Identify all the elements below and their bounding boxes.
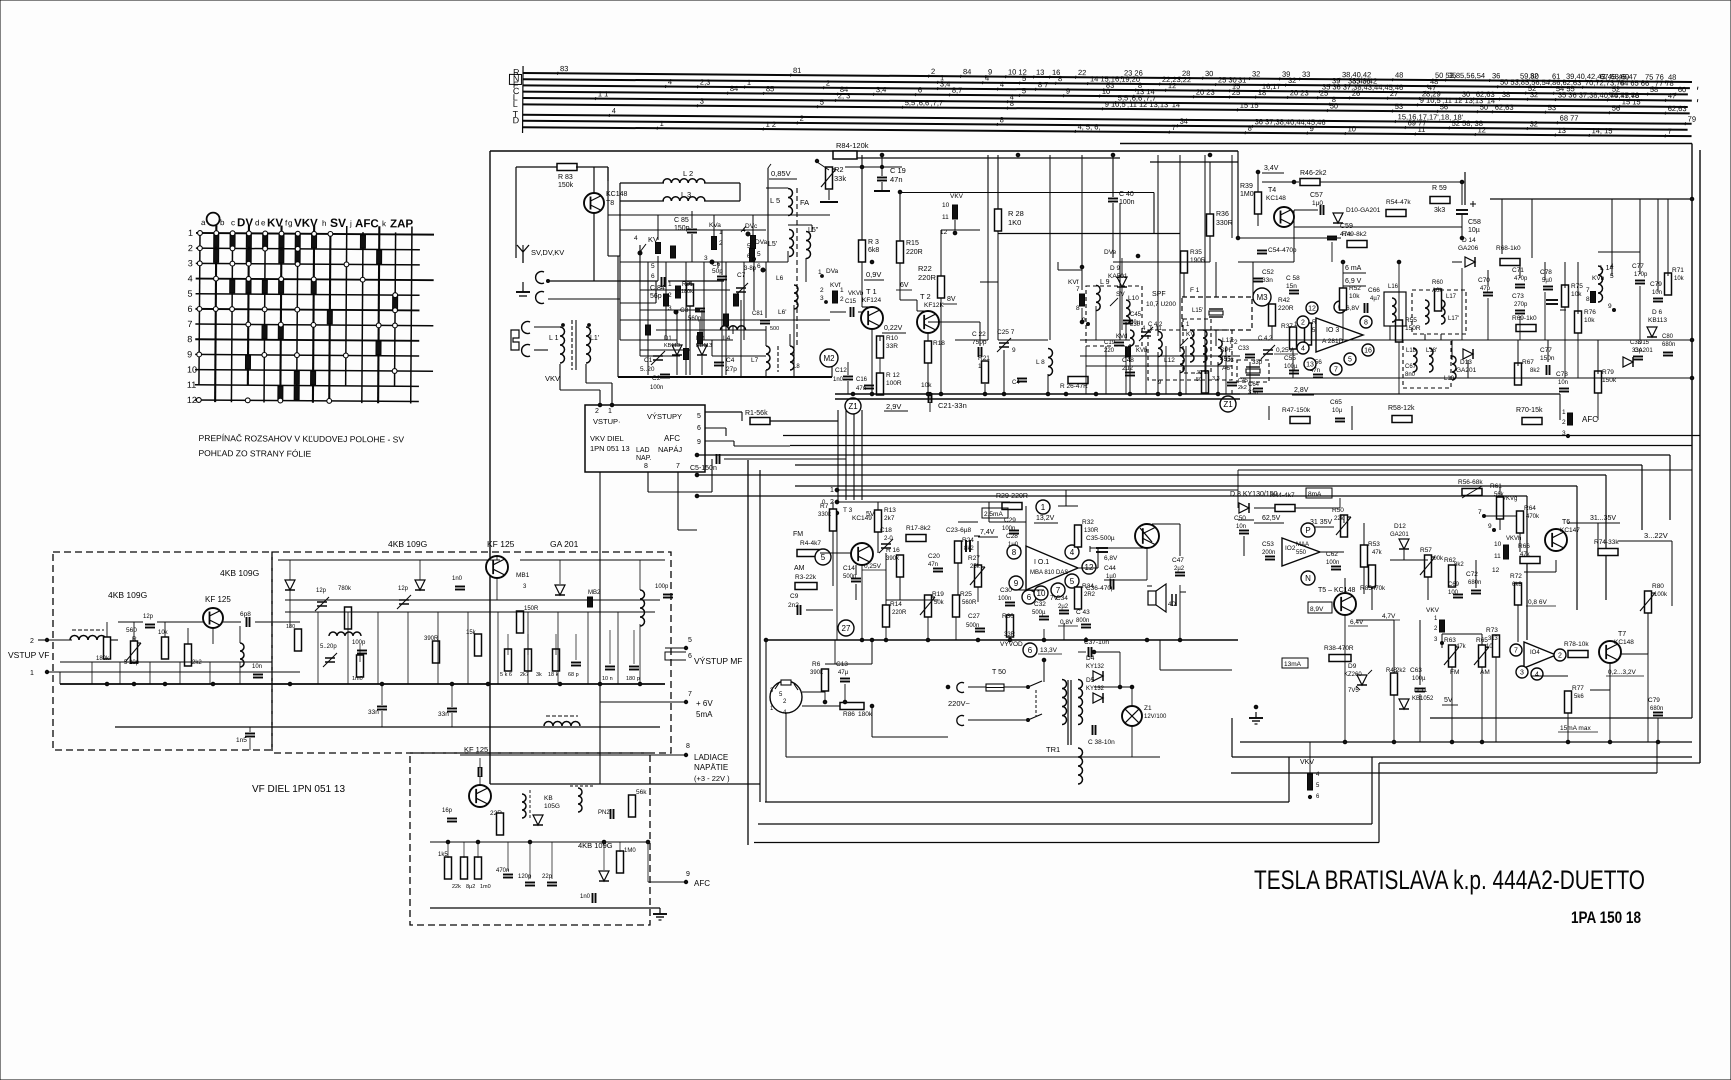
svg-text:b: b: [220, 218, 225, 227]
inductor L12: [1180, 347, 1184, 372]
wire: [1451, 587, 1453, 596]
matrix row 6: [195, 309, 419, 311]
svg-text:L5": L5": [808, 227, 819, 234]
wire: [1496, 85, 1499, 88]
contact 38: [245, 356, 250, 369]
svg-text:C 4,2: C 4,2: [1258, 336, 1273, 342]
svg-text:22k: 22k: [452, 884, 461, 890]
wire: [845, 663, 872, 665]
wire: [1294, 226, 1462, 228]
svg-text:47n: 47n: [856, 386, 866, 392]
svg-text:PREPÍNAČ ROZSAHOV V KĽUDOVEJ: PREPÍNAČ ROZSAHOV V KĽUDOVEJ POLOHE - SV: [199, 433, 405, 444]
resistor R16 390k: [897, 555, 904, 577]
capacitor C2: [660, 375, 670, 378]
inductor L11: [1158, 331, 1162, 356]
matrix col c: [231, 231, 232, 402]
contact point 0,11: [196, 398, 201, 403]
svg-text:MB1: MB1: [516, 572, 530, 579]
wire: [811, 225, 813, 232]
svg-text:R39: R39: [1240, 183, 1253, 190]
pin 6: [1022, 590, 1036, 604]
wire: [1012, 505, 1026, 507]
capacitor C78: [1543, 287, 1553, 290]
svg-text:12: 12: [1492, 567, 1500, 574]
wire: [1351, 406, 1353, 430]
wire: [1588, 522, 1620, 524]
svg-text:R 16: R 16: [886, 547, 900, 554]
svg-text:2R2: 2R2: [1084, 592, 1096, 598]
wire: [676, 310, 678, 344]
wire: [943, 303, 957, 305]
svg-text:C66: C66: [1368, 287, 1380, 294]
wire: [1361, 686, 1363, 700]
wire: [1559, 394, 1561, 420]
bus: [618, 376, 832, 378]
contact 117: [376, 342, 381, 355]
svg-text:25k: 25k: [970, 564, 981, 570]
box 8mA: [1306, 488, 1332, 498]
wire: [560, 389, 600, 391]
svg-text:KC149: KC149: [852, 515, 872, 522]
svg-text:KY132: KY132: [1086, 664, 1105, 670]
wire: [1371, 757, 1373, 824]
capacitor C30: [1005, 603, 1015, 606]
wire: [861, 410, 863, 500]
wire: [1441, 634, 1443, 648]
wire: [611, 383, 613, 405]
wire: [1028, 714, 1042, 720]
wire: [1082, 675, 1120, 677]
capacitor C45: [1123, 321, 1133, 324]
capacitor C19: [877, 178, 887, 181]
wire: [555, 634, 557, 655]
wire: [1664, 134, 1667, 137]
wire: [1309, 742, 1311, 774]
capacitor C13: [840, 679, 850, 682]
resistor R15 220R: [897, 241, 904, 263]
wire: [1656, 742, 1658, 773]
wire: [1043, 660, 1045, 682]
wire: [789, 334, 791, 346]
wire: [837, 501, 1010, 503]
wire: [419, 560, 421, 580]
contact VKV f: [953, 205, 958, 219]
svg-text:GA 201: GA 201: [550, 539, 579, 549]
wire: [743, 262, 745, 340]
matrix col i: [329, 232, 330, 403]
wire: [91, 662, 93, 684]
wire: [766, 187, 788, 189]
wire: [633, 630, 635, 664]
svg-text:4µ7: 4µ7: [1370, 296, 1381, 302]
svg-text:1: 1: [1041, 503, 1046, 512]
wire: [806, 609, 833, 611]
svg-text:L4: L4: [723, 335, 731, 342]
svg-text:L: L: [513, 99, 518, 109]
resistor 1m0 b: [617, 851, 624, 873]
contact point 3,6: [246, 322, 251, 327]
wire: [1164, 89, 1167, 92]
inductor L5p2: [789, 230, 794, 257]
wire: [1498, 98, 1501, 101]
wire: [1517, 605, 1519, 642]
wire: [1609, 663, 1611, 690]
svg-text:1PA 150 18: 1PA 150 18: [1571, 908, 1641, 927]
svg-text:33R: 33R: [886, 343, 898, 350]
resistor R65 10k: [1474, 645, 1489, 667]
wire: [685, 262, 687, 375]
capacitor 33n b: [447, 709, 457, 712]
resistor R81: [687, 284, 694, 306]
wire: [1209, 236, 1211, 262]
resistor 18k: [553, 649, 560, 671]
svg-text:R37: R37: [1281, 323, 1293, 330]
svg-text:47n: 47n: [890, 175, 903, 184]
capacitor C22: [979, 347, 982, 357]
wire: [1038, 653, 1062, 655]
wire: [479, 776, 481, 785]
VF DIEL box A: [53, 552, 272, 750]
wire: [872, 502, 874, 507]
wire: [1316, 96, 1319, 99]
svg-text:550: 550: [1296, 550, 1307, 556]
svg-text:6k8: 6k8: [868, 247, 879, 254]
wire: [1488, 79, 1491, 82]
wire: [1684, 122, 1687, 125]
wire: [516, 166, 558, 168]
inductor out a: [240, 643, 244, 667]
wire: [978, 536, 998, 538]
transistor T1: [861, 307, 883, 329]
contact point 5,3: [279, 277, 284, 282]
wire: [927, 333, 929, 394]
contact point 4,1: [263, 246, 268, 251]
svg-text:2-0: 2-0: [884, 536, 893, 542]
pin N: [1301, 571, 1315, 585]
wire: [721, 262, 723, 275]
contact 11: [214, 249, 219, 262]
ferrite core: [571, 320, 573, 370]
svg-text:0,8V: 0,8V: [1060, 619, 1074, 626]
svg-text:100µ: 100µ: [1412, 676, 1426, 682]
resistor R57 100k: [1420, 555, 1435, 577]
svg-text:VF DIEL 1PN 051 13: VF DIEL 1PN 051 13: [252, 784, 345, 795]
svg-text:1: 1: [188, 228, 193, 238]
wire: [997, 231, 999, 282]
inductor L4: [720, 326, 745, 330]
capacitor 33n a: [377, 707, 387, 710]
op-amp IO4: [1524, 642, 1556, 668]
wire: [882, 332, 906, 334]
wire: [677, 472, 679, 530]
dashed core FA2: [796, 188, 798, 345]
wire: [1320, 181, 1462, 183]
wire: [59, 640, 61, 672]
wire: [1517, 572, 1519, 583]
svg-text:180k: 180k: [858, 711, 873, 718]
wire: [603, 842, 605, 870]
svg-text:F2: F2: [1230, 339, 1238, 346]
contact point 3,11: [245, 398, 250, 403]
wire: [609, 630, 611, 664]
resistor R66: [1520, 557, 1540, 564]
svg-text:VÝSTUPY: VÝSTUPY: [647, 412, 682, 421]
wire: [1094, 651, 1120, 653]
wire: [664, 85, 667, 88]
wire: [1490, 198, 1692, 200]
svg-text:10µ: 10µ: [1332, 408, 1343, 414]
wire: [1532, 675, 1568, 677]
svg-text:0,85V: 0,85V: [771, 169, 791, 178]
wire: [608, 114, 611, 117]
wire: [786, 756, 1132, 758]
wire: [430, 841, 648, 843]
svg-text:2: 2: [931, 67, 935, 76]
diode 4KB: [599, 871, 609, 881]
wire: [1262, 181, 1299, 183]
contact point 6,8: [295, 353, 300, 358]
wire: [725, 428, 727, 436]
svg-text:1: 1: [747, 78, 751, 87]
wire: [805, 258, 807, 282]
wire: [1308, 657, 1362, 659]
svg-text:AFC: AFC: [694, 879, 710, 888]
wire: [1234, 83, 1237, 86]
coil box L18: [1403, 340, 1451, 388]
wire: [1499, 519, 1501, 530]
wire: [836, 515, 838, 640]
wire: [899, 263, 901, 300]
svg-text:L 1: L 1: [549, 335, 559, 342]
bus: [697, 454, 1670, 456]
wire: [832, 553, 834, 586]
wire: [620, 339, 677, 341]
svg-text:L 2: L 2: [683, 169, 693, 178]
svg-text:3: 3: [700, 97, 704, 106]
wire: [1228, 96, 1231, 99]
contact 31: [246, 250, 251, 263]
svg-text:2k2: 2k2: [192, 660, 202, 666]
svg-text:3k3: 3k3: [1488, 636, 1498, 642]
contact point 7,0: [312, 231, 317, 236]
wire: [1394, 120, 1397, 123]
wire: [835, 154, 862, 156]
contact d2b: [724, 314, 729, 326]
wire: [1491, 110, 1494, 113]
svg-text:9: 9: [1066, 87, 1070, 96]
wire: [741, 412, 743, 421]
resistor R85 470k: [1369, 565, 1376, 587]
harness line 3: [523, 85, 1688, 94]
pin4b: [1531, 668, 1543, 680]
wire: [1344, 615, 1346, 742]
wire: [1237, 151, 1239, 238]
wire: [1461, 182, 1463, 198]
svg-text:1: 1: [668, 281, 672, 288]
resistor R17: [906, 535, 926, 542]
diode GA201: [555, 585, 565, 595]
svg-text:D 11: D 11: [1414, 687, 1428, 694]
pin 12: [1306, 302, 1318, 314]
dashed core: [529, 790, 531, 820]
capacitor C14: [851, 579, 861, 582]
VKV DIEL module: [585, 405, 705, 472]
wire: [1647, 198, 1649, 200]
wire: [1292, 394, 1314, 396]
wire: [1013, 506, 1015, 522]
transistor KF125 c: [469, 785, 491, 807]
svg-text:T5 – KC148: T5 – KC148: [1318, 587, 1355, 594]
plug body: [511, 330, 519, 350]
wire: [1214, 83, 1217, 86]
wire: [1158, 83, 1161, 86]
wire: [1215, 330, 1217, 346]
wire: [989, 521, 1026, 523]
wire: [981, 81, 984, 84]
wire: [713, 215, 715, 236]
trimmer C7: [734, 283, 748, 297]
wire: [1576, 486, 1578, 610]
svg-text:5..20p: 5..20p: [320, 644, 337, 650]
wire: [656, 329, 766, 331]
wire: [1343, 285, 1366, 287]
box 2.5mA: [982, 508, 1008, 518]
capacitor C23 el: [966, 536, 980, 552]
wire: [119, 662, 121, 684]
wire: [1042, 514, 1044, 546]
capacitor pn: [611, 809, 614, 819]
svg-text:15n: 15n: [1286, 283, 1297, 290]
wire: [575, 634, 577, 660]
wire: [1176, 124, 1179, 127]
wire: [947, 687, 949, 720]
svg-text:C64: C64: [1248, 382, 1260, 388]
capacitor 470n: [503, 875, 513, 878]
inductor L15p: [1203, 330, 1207, 362]
wire: [620, 182, 664, 184]
svg-text:VKV DIEL: VKV DIEL: [590, 434, 624, 443]
inductor L13: [1218, 339, 1222, 364]
wire: [1293, 210, 1295, 262]
wire: [1597, 340, 1599, 374]
svg-text:4: 4: [1070, 548, 1075, 557]
wire: [676, 356, 678, 375]
svg-text:C 85: C 85: [674, 217, 689, 224]
diode D14: [1465, 257, 1475, 267]
wire: [831, 350, 833, 377]
svg-text:8: 8: [644, 463, 648, 470]
transistor T2: [917, 311, 939, 333]
wire: [1278, 77, 1281, 80]
wire: [289, 560, 291, 580]
wire: [1085, 637, 1087, 640]
wire: [830, 585, 833, 587]
resistor R52 10k: [1340, 288, 1347, 310]
wire: [1120, 76, 1123, 79]
svg-text:R63: R63: [1444, 637, 1456, 644]
resistor 780k: [345, 607, 352, 629]
wire: [917, 310, 928, 312]
inductor L8: [790, 346, 794, 370]
contact point 11,6: [376, 323, 381, 328]
capacitor 68p: [571, 663, 581, 666]
capacitor C69: [1453, 595, 1463, 598]
wire: [806, 501, 837, 503]
svg-text:KF12K: KF12K: [924, 302, 945, 309]
contact 53: [279, 280, 284, 293]
wire: [1419, 694, 1421, 742]
wire: [1121, 288, 1123, 330]
svg-text:5 20p: 5 20p: [124, 660, 140, 666]
svg-text:1M0: 1M0: [1240, 191, 1254, 198]
svg-text:33: 33: [1302, 70, 1310, 79]
svg-text:100p: 100p: [655, 584, 669, 590]
resistor R75 10k: [1562, 285, 1569, 307]
svg-text:105G: 105G: [544, 803, 560, 810]
svg-text:C16: C16: [856, 377, 868, 383]
inductor L14: [1598, 266, 1603, 302]
svg-text:I O.1: I O.1: [1034, 559, 1049, 566]
capacitor C19c: [1114, 343, 1124, 346]
svg-text:C53: C53: [1262, 541, 1274, 548]
svg-text:POHĽAD ZO STRANY FÓLIE: POHĽAD ZO STRANY FÓLIE: [198, 448, 311, 459]
svg-text:1m0: 1m0: [480, 884, 491, 890]
svg-text:4: 4: [1000, 80, 1004, 89]
wire: [467, 612, 469, 684]
svg-text:27: 27: [842, 624, 851, 633]
bus: [795, 485, 1577, 487]
trimmer C18: [879, 539, 893, 553]
svg-text:7: 7: [1668, 127, 1672, 136]
wire: [1112, 203, 1114, 258]
svg-text:33k: 33k: [834, 174, 846, 183]
wire: [607, 167, 609, 196]
svg-text:3: 3: [188, 258, 193, 268]
wire: [845, 410, 847, 500]
wire: [725, 262, 727, 375]
resistor R62 8k2: [1449, 565, 1456, 587]
trimmer C4,2: [1139, 327, 1153, 341]
audio bus: [766, 639, 1238, 641]
svg-text:500: 500: [770, 326, 779, 332]
wire: [1472, 97, 1475, 100]
wire: [1519, 262, 1521, 278]
svg-text:C67: C67: [1405, 364, 1417, 370]
svg-text:16: 16: [1364, 348, 1372, 355]
wire: [900, 192, 1154, 194]
wire: [647, 472, 649, 492]
svg-text:5: 5: [188, 289, 193, 299]
wire: [1526, 605, 1556, 607]
svg-text:NAPÁJ: NAPÁJ: [658, 445, 682, 454]
pin 2: [1297, 316, 1309, 328]
resistor R84: [833, 151, 857, 159]
svg-text:e: e: [261, 218, 266, 227]
wire: [1132, 756, 1160, 758]
svg-text:C12: C12: [835, 367, 847, 374]
contact point 5,6: [278, 322, 283, 327]
wire: [929, 402, 931, 412]
wire: [1344, 84, 1347, 87]
wire: [1147, 585, 1152, 587]
wire: [1102, 88, 1105, 91]
capacitor C64: [1253, 389, 1263, 392]
svg-text:47k: 47k: [1372, 550, 1383, 556]
wire: [1262, 172, 1284, 174]
contact d2c: [684, 349, 689, 360]
node Z1b: [1220, 396, 1236, 412]
wire: [1328, 103, 1331, 106]
